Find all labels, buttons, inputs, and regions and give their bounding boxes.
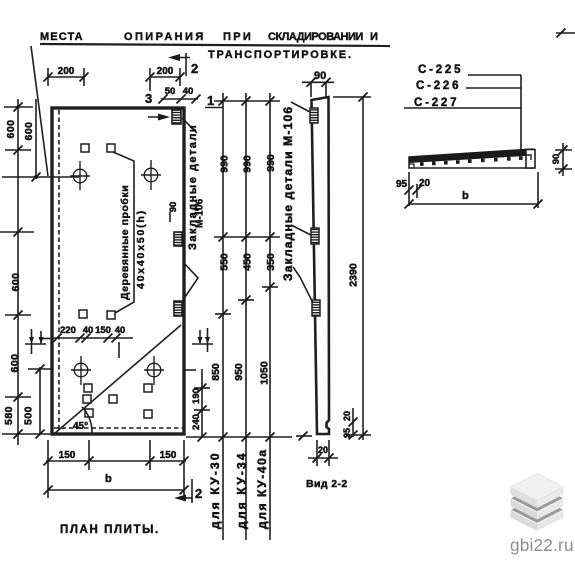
svg-text:600: 600 <box>23 121 35 140</box>
svg-text:СКЛАДИРОВАНИИ: СКЛАДИРОВАНИИ <box>268 31 363 43</box>
svg-text:240: 240 <box>191 414 202 430</box>
svg-text:МЕСТА: МЕСТА <box>40 31 84 43</box>
svg-text:990: 990 <box>265 154 277 172</box>
svg-text:200: 200 <box>157 66 174 77</box>
svg-text:3: 3 <box>145 91 152 106</box>
svg-text:600: 600 <box>9 353 21 372</box>
svg-text:40: 40 <box>115 325 126 336</box>
svg-text:150: 150 <box>95 325 111 336</box>
svg-text:Закладные детали: Закладные детали <box>187 124 199 250</box>
svg-text:95: 95 <box>396 179 408 190</box>
svg-text:С-226: С-226 <box>416 80 461 92</box>
svg-text:М-106: М-106 <box>195 198 206 228</box>
svg-text:b: b <box>105 473 112 485</box>
svg-text:2: 2 <box>195 486 202 501</box>
svg-text:2: 2 <box>191 61 198 76</box>
svg-text:для КУ-40а: для КУ-40а <box>255 448 269 529</box>
svg-text:95: 95 <box>342 428 352 438</box>
svg-text:2390: 2390 <box>348 263 360 287</box>
svg-text:850: 850 <box>210 363 222 381</box>
svg-text:ТРАНСПОРТИРОВКЕ.: ТРАНСПОРТИРОВКЕ. <box>208 49 353 61</box>
svg-text:20: 20 <box>342 411 352 421</box>
svg-text:20: 20 <box>318 445 328 455</box>
svg-text:45°: 45° <box>73 421 88 432</box>
svg-text:для КУ-34: для КУ-34 <box>235 451 249 529</box>
svg-text:Деревянные пробки: Деревянные пробки <box>119 185 131 300</box>
svg-text:Закладные детали М-106: Закладные детали М-106 <box>281 106 295 281</box>
svg-text:50: 50 <box>165 86 176 97</box>
svg-text:1050: 1050 <box>259 361 271 385</box>
svg-text:600: 600 <box>5 119 17 138</box>
svg-text:ОПИРАНИЯ: ОПИРАНИЯ <box>124 31 206 43</box>
svg-text:b: b <box>462 190 469 202</box>
svg-text:90: 90 <box>168 202 179 213</box>
svg-text:990: 990 <box>242 155 254 173</box>
svg-text:40: 40 <box>83 325 94 336</box>
svg-text:90: 90 <box>314 70 326 82</box>
svg-text:200: 200 <box>58 66 75 77</box>
svg-text:990: 990 <box>219 155 231 173</box>
svg-text:И: И <box>370 31 379 43</box>
svg-text:gbi22.ru: gbi22.ru <box>510 535 574 555</box>
svg-text:550: 550 <box>219 253 231 271</box>
svg-text:600: 600 <box>10 272 22 291</box>
svg-text:500: 500 <box>23 406 35 425</box>
svg-text:для КУ-30: для КУ-30 <box>208 451 222 529</box>
svg-text:150: 150 <box>160 450 177 461</box>
svg-text:40х40х50(h): 40х40х50(h) <box>135 209 147 289</box>
svg-text:40: 40 <box>183 86 194 97</box>
svg-text:ПРИ: ПРИ <box>223 31 253 43</box>
svg-text:20: 20 <box>419 178 431 189</box>
svg-text:90: 90 <box>551 154 562 165</box>
svg-text:580: 580 <box>3 406 15 425</box>
svg-text:150: 150 <box>59 450 76 461</box>
svg-text:950: 950 <box>233 363 245 381</box>
svg-text:450: 450 <box>242 253 254 271</box>
svg-text:Вид 2-2: Вид 2-2 <box>306 478 348 490</box>
svg-text:190: 190 <box>191 388 202 404</box>
svg-text:220: 220 <box>60 325 76 336</box>
svg-text:1: 1 <box>207 93 214 108</box>
svg-text:350: 350 <box>265 253 277 271</box>
svg-text:ПЛАН ПЛИТЫ.: ПЛАН ПЛИТЫ. <box>60 524 160 536</box>
svg-text:С-225: С-225 <box>418 64 463 76</box>
